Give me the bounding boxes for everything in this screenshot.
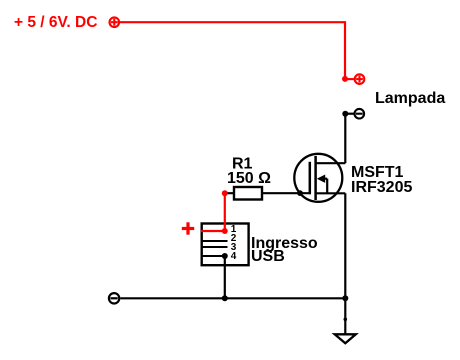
junction dot bottom rail at source: [342, 295, 348, 301]
terminal lamp positive: [355, 74, 365, 84]
terminal bottom negative: [109, 293, 119, 303]
drain tap: [316, 162, 346, 164]
red net plus to pin1: [201, 230, 225, 232]
connector USB box: [202, 224, 249, 266]
svg-text:150 Ω: 150 Ω: [227, 170, 271, 187]
svg-text:4: 4: [231, 251, 237, 262]
source tap: [316, 192, 346, 194]
junction dot bottom rail at usb: [222, 295, 228, 301]
ground pin dot: [344, 318, 348, 322]
wire bottom rail: [120, 297, 345, 299]
transistor MSFT1 body circle: [294, 154, 342, 202]
junction dot pin1: [222, 228, 228, 234]
wire dot to lamp plus terminal: [345, 78, 355, 80]
wire lamp negative to drain: [344, 114, 346, 164]
terminal supply positive: [110, 17, 120, 27]
wire lamp minus to terminal: [345, 113, 354, 115]
terminal lamp negative: [355, 109, 365, 119]
pin 4 dot: [222, 253, 228, 259]
pin 2 stub: [202, 240, 228, 242]
gate pin dot: [297, 190, 303, 196]
pin 3 stub: [202, 246, 228, 248]
wire to ground: [344, 298, 346, 334]
junction dot resistor left: [222, 190, 228, 196]
ground symbol: [335, 334, 356, 343]
red wire pin1 to resistor: [224, 193, 226, 231]
wire supply to lamp plus: [120, 22, 345, 79]
body diode arrow: [317, 175, 327, 194]
svg-text:USB: USB: [251, 248, 285, 265]
pin 4 stub: [202, 255, 228, 257]
junction dot lamp negative: [342, 111, 348, 117]
svg-text:IRF3205: IRF3205: [351, 179, 412, 196]
wire pin 4 to bottom rail: [224, 256, 226, 298]
junction dot lamp plus: [342, 76, 348, 82]
gate bar: [309, 162, 312, 195]
wire resistor to gate: [226, 192, 310, 194]
resistor R1 body: [234, 187, 262, 200]
svg-text:Lampada: Lampada: [375, 90, 445, 107]
wire source to bottom rail: [344, 193, 346, 298]
svg-text:+ 5 / 6V. DC: + 5 / 6V. DC: [14, 14, 97, 31]
label plus usb: [182, 222, 194, 234]
channel bar: [314, 156, 317, 200]
